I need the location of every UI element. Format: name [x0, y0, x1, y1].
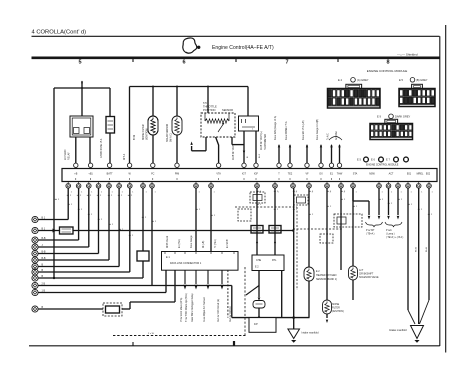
svg-text:E 6: E 6	[371, 158, 375, 162]
wire feeder x408	[407, 188, 409, 310]
svg-text:(A) GREY: (A) GREY	[357, 78, 369, 82]
svg-text:(IGNITION): (IGNITION)	[332, 311, 344, 313]
relay box dashed A	[250, 192, 265, 203]
wire arrow pin379	[378, 188, 380, 215]
wire dlc feeders	[195, 188, 197, 252]
bottom rule	[29, 345, 440, 347]
svg-text:DATA LINK CONNECTOR 1: DATA LINK CONNECTOR 1	[170, 262, 202, 265]
svg-text:Fuse IGN (Gauge 10 A): Fuse IGN (Gauge 10 A)	[274, 116, 277, 140]
node battery stub	[81, 81, 83, 116]
wire feeder x341	[340, 188, 342, 270]
wire tps feed	[207, 87, 209, 114]
sensor throttle position TPS	[201, 113, 235, 137]
wire pin143 comp drop	[142, 188, 144, 251]
wire copn pins	[109, 133, 111, 163]
svg-text:THW: THW	[337, 173, 343, 176]
svg-text:E 5: E 5	[357, 158, 361, 162]
wire feeder x293	[293, 188, 295, 329]
svg-text:CHE: CHE	[256, 259, 261, 262]
dashed vertical x227.9	[227, 270, 229, 318]
svg-text:P w/o: P w/o	[386, 230, 392, 232]
wire feeder x275	[274, 188, 276, 255]
svg-text:NOISE: NOISE	[332, 304, 340, 306]
wire feeder x309	[308, 188, 310, 267]
ECM pin strip	[62, 169, 437, 182]
svg-text:P w/ MT: P w/ MT	[366, 230, 375, 232]
svg-text:THROTTLE: THROTTLE	[203, 105, 217, 109]
inner right border	[439, 36, 441, 346]
svg-text:SOLAR SENSOR: SOLAR SENSOR	[166, 124, 169, 142]
svg-text:—⏙— Shielded: —⏙— Shielded	[397, 53, 418, 57]
ground intake manifold right	[411, 326, 424, 343]
wire arrow pin398	[397, 188, 399, 215]
svg-text:VF: VF	[305, 173, 309, 176]
svg-text:VTA: VTA	[216, 173, 221, 176]
wire feeder x257	[256, 188, 258, 255]
svg-text:+B1: +B1	[88, 173, 93, 176]
dashed box pair	[334, 214, 362, 227]
svg-text:POSITION: POSITION	[203, 108, 216, 112]
svg-text:( Lamp ): ( Lamp )	[386, 234, 395, 236]
svg-text:Engine Control(4A–FE A/T): Engine Control(4A–FE A/T)	[212, 45, 274, 51]
svg-text:E 7: E 7	[386, 158, 390, 162]
svg-text:W=B Check: W=B Check	[167, 235, 169, 248]
wire c12 run	[38, 308, 103, 310]
svg-text:PIM: PIM	[175, 173, 179, 176]
relay EFI MAIN RELAY	[70, 116, 93, 137]
svg-text:T/V: T/V	[203, 101, 207, 105]
svg-text:W=B: W=B	[416, 247, 418, 252]
svg-text:( TE=A ) + ( B A ): ( TE=A ) + ( B A )	[386, 236, 404, 239]
sensor heated oxygen	[304, 267, 314, 281]
svg-text:(B) GREY: (B) GREY	[416, 78, 428, 82]
svg-text:4 COROLLA(Cont’ d): 4 COROLLA(Cont’ d)	[32, 29, 87, 35]
svg-text:TE2: TE2	[288, 173, 293, 176]
svg-text:ENGINE CONTROL MODULE: ENGINE CONTROL MODULE	[366, 164, 399, 167]
fuel pump box	[249, 318, 276, 333]
svg-text:E 4: E 4	[338, 78, 342, 82]
wire fan staircase	[38, 219, 68, 221]
junction dot x293	[292, 316, 295, 319]
svg-text:W 5 A: W 5 A	[123, 153, 126, 160]
svg-text:RELAY: RELAY	[68, 152, 71, 160]
data link connector 1	[162, 252, 239, 271]
wire tps pin A jog	[205, 137, 207, 151]
wire tps pin C jog	[231, 137, 233, 145]
wires ecm top feeders	[278, 145, 280, 163]
wire c9 run	[38, 277, 143, 279]
svg-text:TACHOMETER: TACHOMETER	[264, 134, 267, 150]
wire relay pins	[75, 137, 77, 163]
wire feeder x353	[352, 188, 354, 266]
svg-text:DARK GREY: DARK GREY	[395, 115, 411, 119]
noise filter box B	[269, 226, 281, 234]
svg-text:2 = W: 2 = W	[148, 333, 155, 335]
svg-text:E1 (TE1): E1 (TE1)	[179, 239, 181, 248]
noise filter ignition lower	[323, 300, 332, 314]
svg-text:Fuse Gauge: Fuse Gauge	[191, 235, 193, 248]
dashed option enclosure	[235, 206, 297, 208]
wire feeder x429	[428, 188, 430, 300]
wire arrow pin388	[388, 188, 390, 215]
svg-text:CIR BKSHIFT: CIR BKSHIFT	[359, 274, 374, 276]
wire elbow pin353	[352, 188, 354, 201]
wire c10 run	[38, 285, 152, 287]
solenoid capsule	[349, 266, 358, 280]
svg-text:SOLENOID VALVE: SOLENOID VALVE	[359, 276, 379, 279]
connector inline bottom left	[103, 303, 122, 316]
svg-text:STA: STA	[353, 173, 358, 176]
ground intake manifold center	[288, 329, 300, 343]
wire c10 U-route to check connector	[152, 285, 232, 287]
svg-text:W (+B): W (+B)	[203, 241, 205, 248]
svg-text:IG=B W/ TACH: IG=B W/ TACH	[232, 144, 235, 160]
svg-text:MREL: MREL	[417, 173, 424, 176]
svg-text:E 9: E 9	[377, 115, 381, 119]
svg-text:(IGNITION): (IGNITION)	[147, 128, 149, 140]
svg-text:7: 7	[285, 60, 288, 66]
svg-text:B=W: B=W	[134, 134, 136, 140]
ecm top pin circles	[74, 163, 78, 167]
dashed box lower-left	[238, 209, 251, 221]
svg-text:E02: E02	[426, 173, 431, 176]
relay circuit opening	[106, 117, 115, 134]
top band rule	[32, 56, 440, 59]
svg-text:Intake manifold: Intake manifold	[302, 332, 320, 335]
svg-text:IG=B W/ TACH (+): IG=B W/ TACH (+)	[260, 131, 263, 150]
sensor noise filter B	[176, 87, 178, 117]
svg-text:B=Y: B=Y	[259, 153, 261, 158]
svg-text:FC: FC	[151, 173, 154, 176]
svg-text:Run w/ DM Circuit (E): Run w/ DM Circuit (E)	[217, 299, 220, 322]
svg-text:NSW: NSW	[369, 173, 375, 176]
wire feeder x327	[326, 188, 328, 300]
svg-text:T=w/ TWC Warm Up (W A): T=w/ TWC Warm Up (W A)	[185, 293, 188, 322]
svg-text:RTL: RTL	[272, 259, 277, 262]
svg-text:IGF: IGF	[254, 173, 259, 176]
svg-text:P=w/ EGR Valve (W A): P=w/ EGR Valve (W A)	[180, 297, 183, 322]
svg-text:+B: +B	[74, 173, 77, 176]
svg-text:5: 5	[78, 60, 81, 66]
svg-text:To A/C: To A/C	[327, 133, 330, 140]
check connector box	[252, 255, 284, 271]
svg-text:E 5: E 5	[399, 78, 403, 82]
wire tps pin B	[216, 137, 219, 163]
outer right border	[445, 25, 447, 353]
dashed vertical bottom	[244, 267, 246, 336]
brace pair A	[366, 222, 383, 227]
wire feeder x418	[418, 188, 420, 324]
noise filter box A	[251, 226, 263, 234]
svg-text:W=B: W=B	[426, 247, 428, 252]
wire circuit opening diode run	[38, 230, 59, 232]
wire dlc bottom pins	[184, 270, 186, 284]
header rule	[32, 35, 440, 37]
dashed bottom option line	[113, 335, 246, 337]
svg-text:Amplifier: Amplifier	[335, 131, 338, 140]
wire c11 run	[38, 292, 166, 294]
wire seg2 top feed	[130, 86, 249, 88]
svg-text:8: 8	[386, 60, 389, 66]
brace pair B	[385, 222, 402, 227]
svg-text:Fuse DOME 7.5 A: Fuse DOME 7.5 A	[285, 121, 288, 140]
transistor chain	[258, 271, 260, 298]
svg-text:A=T: A=T	[359, 269, 364, 272]
sensor noise filter A	[152, 87, 154, 117]
wire igniter pins	[243, 131, 245, 163]
dashed box x327	[320, 234, 333, 243]
svg-text:F/P: F/P	[254, 323, 258, 326]
wire seg1 top feed	[54, 87, 110, 89]
svg-text:6: 6	[182, 60, 185, 66]
svg-text:SENSOR: SENSOR	[222, 108, 233, 112]
svg-text:BATT: BATT	[107, 173, 113, 176]
column ticks top	[132, 59, 134, 62]
svg-text:Tc (TE1): Tc (TE1)	[215, 239, 217, 248]
svg-text:ACT: ACT	[389, 173, 394, 176]
svg-text:Intake manifold: Intake manifold	[389, 328, 407, 332]
svg-text:NOISE FILTER: NOISE FILTER	[143, 124, 145, 140]
svg-text:(W/ A.C): (W/ A.C)	[170, 133, 173, 142]
svg-text:ENGINE CONTROL MODULE: ENGINE CONTROL MODULE	[367, 69, 408, 73]
svg-text:E1 W=B: E1 W=B	[227, 239, 229, 248]
svg-text:Fuse Wiper A/F Sensor: Fuse Wiper A/F Sensor	[203, 297, 206, 322]
svg-text:Fuse EFI 15 A (+B): Fuse EFI 15 A (+B)	[302, 120, 305, 140]
svg-text:( TE=A ): ( TE=A )	[366, 233, 375, 236]
wire pin152 drop	[151, 188, 153, 286]
left junction connectors	[32, 216, 38, 222]
svg-text:E 1: E 1	[166, 256, 170, 259]
svg-text:E01: E01	[407, 173, 412, 176]
vehicle icon	[183, 38, 197, 53]
svg-text:IGT: IGT	[242, 173, 247, 176]
svg-text:C/OPN FUSE 15 A: C/OPN FUSE 15 A	[100, 138, 103, 158]
igniter box	[239, 116, 259, 131]
ecm bottom pin circles	[67, 182, 69, 184]
svg-text:FILTER: FILTER	[332, 308, 340, 310]
svg-text:Fuse Gauge 10 A(B): Fuse Gauge 10 A(B)	[316, 119, 319, 140]
svg-text:OX: OX	[319, 173, 323, 176]
relay box dashed B	[294, 195, 308, 205]
bottom ticks	[132, 342, 134, 346]
svg-text:Rear Wind Defogger Relay: Rear Wind Defogger Relay	[191, 293, 194, 322]
